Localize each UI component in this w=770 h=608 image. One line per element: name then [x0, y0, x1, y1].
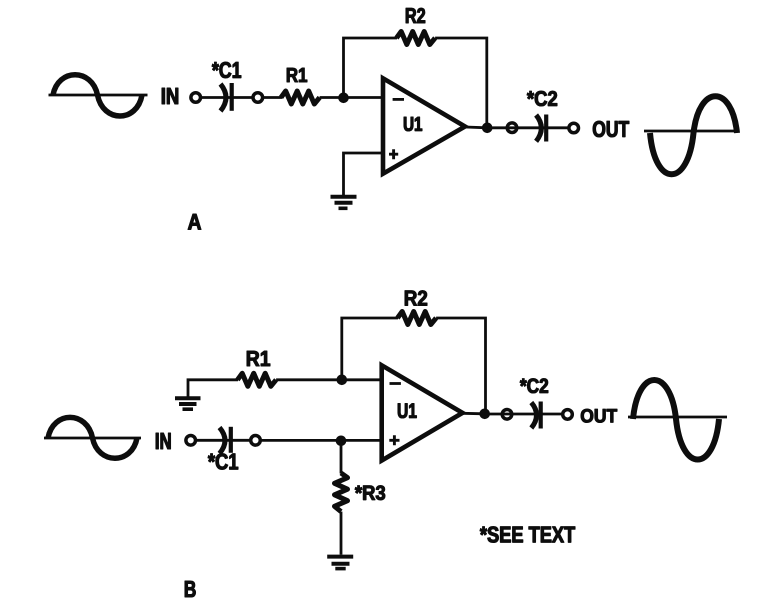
label *R3 (B) [355, 486, 385, 501]
wire R2 to output node down (A) [435, 38, 487, 128]
input sine wave (A) [53, 75, 142, 116]
op-amp U1 (A) label [404, 117, 422, 131]
node at output (A) [482, 123, 492, 133]
node at output (B) [480, 409, 490, 419]
input terminal circle (B) [186, 436, 196, 446]
label R1 (A) [287, 68, 307, 82]
wire node down to R3 (B) [340, 441, 343, 474]
ground below R3 (B) bar 3 [335, 567, 345, 571]
wire R3 to ground (B) [340, 512, 343, 555]
wire noninverting input to ground (A) [344, 153, 384, 195]
op-amp U1 (B) label [398, 404, 417, 419]
label R2 (A) [406, 8, 425, 23]
wire input terminal to second terminal through C1 (A) [201, 96, 253, 99]
output sine wave baseline (B) [628, 416, 727, 419]
node junction at noninverting input (B) [336, 436, 346, 446]
capacitor C2 (B) straight plate [539, 402, 543, 429]
wire terminal to R1 (A) [263, 96, 282, 99]
wire R1 left end with stub to ground (B) [188, 380, 238, 397]
resistor R2 (B) [398, 312, 437, 325]
op-amp U1 (A) triangle [383, 78, 465, 173]
ground (A) bar 2 [335, 201, 353, 205]
input sine wave baseline (B) [44, 437, 141, 440]
input sine wave (B) [48, 417, 137, 458]
terminal circle after C1 (B) [251, 436, 261, 446]
wire R1 to op-amp (A) [320, 96, 383, 99]
capacitor C1 (A) straight plate [230, 83, 234, 111]
ground at R1 left end (B) bar 3 [183, 407, 194, 411]
ground at R1 left end (B) bar 1 [175, 396, 201, 400]
op-amp U1 (B) triangle [382, 365, 463, 460]
label A [188, 214, 201, 230]
label *SEE TEXT (B) [480, 527, 575, 543]
OUT label (B) [581, 409, 617, 423]
wire feedback up and across to R2 (A) [344, 38, 398, 98]
op-amp U1 (A) minus sign [393, 98, 404, 101]
terminal circle after C2 (B) [563, 410, 573, 420]
OUT label (A) [593, 121, 629, 137]
capacitor C2 (A) straight plate [544, 115, 548, 142]
input terminal circle (A) [191, 93, 201, 103]
label B [185, 581, 196, 597]
wire op-amp output to node (A) [465, 126, 487, 130]
label *C1 (B) [208, 454, 238, 470]
node junction at inverting input (A) [339, 93, 349, 103]
resistor R1 (A) [281, 91, 320, 104]
IN label (A) [162, 88, 178, 104]
capacitor C2 (A) curved plate [536, 115, 541, 141]
label *C2 (A) [527, 91, 557, 106]
ground at R1 left end (B) bar 2 [179, 402, 197, 406]
ground below R3 (B) bar 1 [327, 555, 353, 559]
label R2 (B) [405, 291, 427, 306]
wire op-amp output to node (B) [463, 412, 485, 415]
wire input terminal through C1 to terminal (B) [196, 439, 251, 442]
wire terminal to op-amp noninverting input (B) [260, 439, 381, 442]
wire R2 to output node down (B) [436, 318, 485, 414]
IN label (B) [156, 433, 171, 449]
wire feedback up and across to R2 (B) [342, 318, 398, 380]
terminal circle before C2 (B) [502, 410, 512, 420]
label R1 (B) [247, 351, 270, 366]
op-amp U1 (A) plus sign [389, 149, 398, 159]
label *C1 (A) [212, 62, 241, 78]
output sine wave (A) inverted phase [650, 96, 737, 174]
output sine wave (B) in phase [633, 380, 719, 460]
input sine wave baseline (A) [49, 94, 148, 97]
op-amp U1 (B) minus sign [390, 382, 401, 385]
capacitor C1 (B) straight plate [229, 427, 233, 453]
wire node through C2 to terminal (B) [485, 413, 562, 416]
capacitor C1 (B) curved plate [220, 428, 226, 454]
ground below R3 (B) bar 2 [332, 562, 350, 566]
wire node to C2 through terminal (A) [487, 126, 568, 129]
output sine wave baseline (A) [644, 130, 738, 133]
terminal circle before C2 (A) [507, 123, 517, 133]
node junction at inverting input (B) [337, 375, 347, 385]
resistor R2 (A) [397, 32, 436, 45]
terminal circle after C1 (A) [253, 93, 263, 103]
label *C2 (B) [520, 379, 548, 394]
capacitor C1 (A) curved plate [221, 84, 227, 111]
ground (A) bar 1 [331, 195, 357, 199]
op-amp U1 (B) plus sign [389, 435, 399, 445]
capacitor C2 (B) curved plate [531, 403, 536, 429]
ground (A) bar 3 [339, 207, 348, 211]
terminal circle after C2 (A) [569, 123, 579, 133]
resistor R3 (B) vertical [335, 473, 348, 512]
resistor R1 (B) [238, 373, 277, 386]
wire R1 to op-amp inverting input (B) [276, 378, 382, 381]
